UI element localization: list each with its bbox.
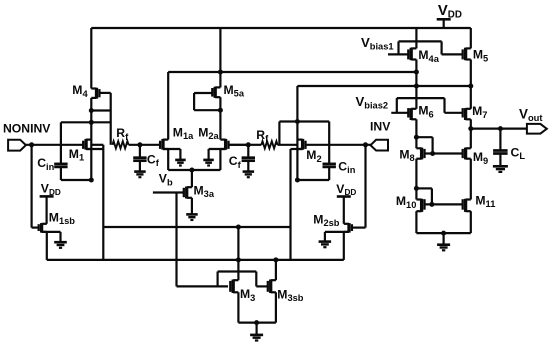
svg-text:INV: INV xyxy=(370,120,391,134)
svg-text:NONINV: NONINV xyxy=(3,122,51,136)
